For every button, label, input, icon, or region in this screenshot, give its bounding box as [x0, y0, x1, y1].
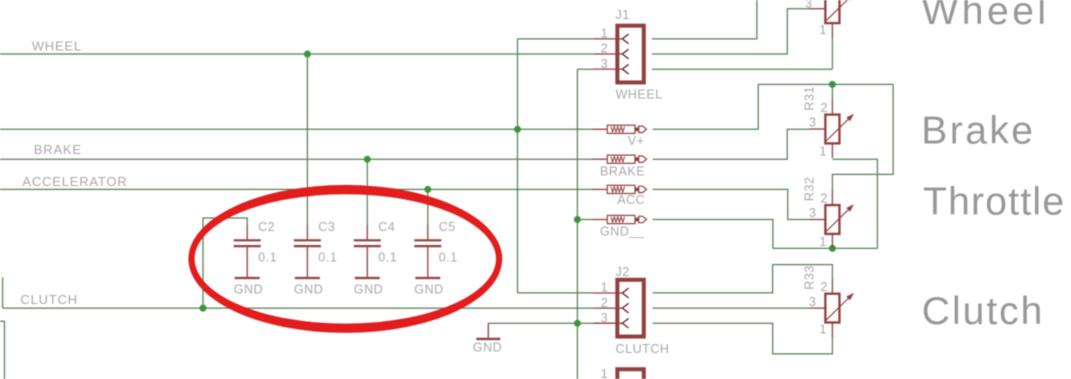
svg-text:1: 1 — [819, 23, 827, 37]
svg-text:1: 1 — [819, 235, 827, 249]
svg-text:0.1: 0.1 — [258, 250, 277, 264]
svg-text:1: 1 — [819, 323, 827, 337]
svg-text:GND: GND — [354, 282, 383, 296]
wire GND__ jumper lead — [577, 219, 592, 221]
wire J1.3 right to R30.1 — [652, 68, 832, 70]
wire J1.1 right to top — [652, 0, 757, 39]
node junction R31.2 — [829, 81, 836, 88]
wire C2 hook to CLUTCH — [203, 218, 247, 308]
svg-text:R33: R33 — [803, 265, 817, 290]
svg-text:R32: R32 — [803, 177, 817, 202]
wire J1.2 right to R30.3 — [652, 9, 811, 54]
svg-text:CLUTCH: CLUTCH — [20, 292, 78, 307]
svg-text:GND: GND — [473, 341, 502, 355]
svg-text:0.1: 0.1 — [378, 250, 397, 264]
node junction C3-WHEEL — [304, 51, 311, 58]
wire J2.1 right to R33.2 — [653, 265, 833, 293]
svg-text:GND__: GND__ — [600, 224, 645, 238]
wire bottom-left hook — [0, 321, 5, 379]
potentiometer R30 partial — [810, 0, 854, 38]
wire BRAKE net row left — [0, 158, 592, 160]
svg-text:Clutch: Clutch — [922, 290, 1045, 333]
capacitor C3 — [294, 225, 321, 278]
wire C4 to BRAKE — [366, 159, 368, 226]
jumper ACC — [592, 185, 646, 193]
wire V+ net row left — [0, 128, 592, 130]
svg-text:3: 3 — [809, 206, 817, 220]
wire J1 pin3 left — [577, 68, 593, 70]
svg-text:2: 2 — [820, 192, 828, 206]
node junction GND jumper — [574, 216, 581, 223]
svg-text:0.1: 0.1 — [318, 250, 337, 264]
capacitor C2 — [234, 225, 261, 278]
svg-text:3: 3 — [601, 311, 609, 325]
node junction R32.1 — [829, 245, 836, 252]
svg-text:3: 3 — [601, 57, 609, 71]
wire ACCELERATOR net row left — [0, 188, 592, 190]
wire R30.1 drop — [831, 36, 833, 69]
connector J2 — [593, 280, 643, 337]
wire R31 top rail — [758, 83, 893, 85]
svg-text:GND: GND — [414, 282, 443, 296]
wire C5 to ACCELERATOR — [427, 189, 429, 226]
potentiometer R32 — [810, 191, 854, 249]
wire rail right drop to R32.2 — [832, 84, 893, 191]
svg-text:J2: J2 — [616, 265, 630, 279]
wire J2.2 right to R33.3 — [653, 307, 811, 309]
wire R31.2 drop — [831, 84, 833, 101]
potentiometer R33 — [810, 279, 854, 337]
wire GND jumper to rail — [653, 220, 773, 249]
wire GND vertical J1.3 to J3 — [576, 69, 578, 379]
svg-text:Wheel: Wheel — [922, 0, 1050, 33]
svg-text:3: 3 — [809, 116, 817, 130]
wire R31.1 to rail — [832, 159, 877, 248]
svg-text:2: 2 — [601, 296, 609, 310]
wire J2.3 right to R33.1 — [653, 323, 833, 354]
wire ACC jumper to R32.3 — [653, 189, 811, 219]
svg-text:C5: C5 — [439, 220, 456, 234]
wire CLUTCH stub up-left — [2, 277, 4, 308]
svg-text:WHEEL: WHEEL — [32, 38, 82, 53]
svg-text:GND: GND — [294, 282, 323, 296]
svg-text:J1: J1 — [616, 8, 630, 22]
svg-text:BRAKE: BRAKE — [600, 164, 645, 178]
node junction C5-ACCELERATOR — [424, 186, 431, 193]
svg-text:3: 3 — [809, 295, 817, 309]
ground symbol near J2 — [473, 323, 502, 354]
node junction GND-J2.3 — [574, 320, 581, 327]
wire C3 to WHEEL — [306, 54, 308, 226]
svg-text:BRAKE: BRAKE — [34, 142, 82, 157]
wire J1 pin1 left — [518, 38, 594, 40]
svg-text:WHEEL: WHEEL — [616, 88, 663, 102]
svg-text:V+: V+ — [628, 134, 645, 148]
jumper V+ — [592, 125, 646, 133]
capacitor C4 — [354, 225, 381, 278]
node junction C4-BRAKE — [364, 156, 371, 163]
svg-text:C2: C2 — [258, 220, 275, 234]
svg-text:1: 1 — [601, 281, 609, 295]
jumper BRAKE — [592, 155, 646, 163]
connector J1 — [593, 26, 643, 83]
annotation red ellipse around capacitors — [188, 185, 502, 333]
wire V+ jumper to R31 top rail — [653, 84, 759, 129]
wire GND rail under R32 — [773, 247, 878, 249]
svg-text:1: 1 — [819, 145, 827, 159]
svg-text:Brake: Brake — [921, 109, 1035, 152]
jumper GND — [592, 215, 646, 223]
node junction C2-CLUTCH — [200, 305, 207, 312]
svg-text:1: 1 — [601, 367, 609, 379]
svg-text:Throttle: Throttle — [923, 181, 1065, 224]
node junction V+ vertical — [514, 126, 521, 133]
svg-text:1: 1 — [601, 27, 609, 41]
svg-text:2: 2 — [820, 280, 828, 294]
svg-text:C3: C3 — [318, 220, 335, 234]
svg-text:GND: GND — [234, 282, 263, 296]
svg-text:R31: R31 — [803, 86, 817, 111]
capacitor C5 — [414, 225, 441, 278]
svg-text:2: 2 — [601, 42, 609, 56]
svg-text:3: 3 — [805, 0, 813, 10]
wire CLUTCH net row — [3, 307, 594, 309]
svg-text:CLUTCH: CLUTCH — [616, 342, 670, 356]
wire WHEEL net row — [0, 53, 593, 55]
wire J2 pin3 left — [488, 322, 593, 324]
potentiometer R31 — [810, 100, 854, 158]
svg-text:2: 2 — [820, 101, 828, 115]
wire V+ vertical J1.1 to J2.1 — [517, 39, 519, 293]
connector J3 partial — [617, 369, 643, 379]
svg-text:ACC: ACC — [617, 193, 645, 207]
wire J2 pin1 left — [518, 292, 594, 294]
wire BRAKE jumper to R31.3 — [653, 129, 811, 159]
svg-text:ACCELERATOR: ACCELERATOR — [22, 174, 127, 189]
svg-text:C4: C4 — [378, 220, 395, 234]
svg-text:0.1: 0.1 — [439, 250, 458, 264]
